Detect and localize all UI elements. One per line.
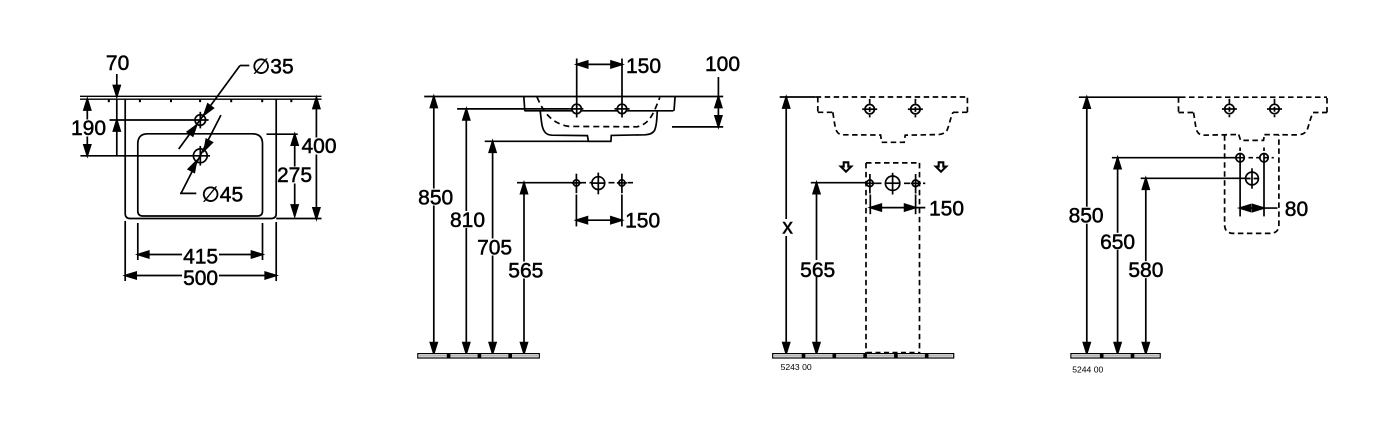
rim ref line view4: [1079, 96, 1180, 98]
dimension 415 extension lines: [137, 223, 139, 260]
dimension 190: [86, 99, 88, 156]
basin inner bowl rounded rect: [138, 134, 263, 216]
svg-text:190: 190: [71, 117, 106, 140]
fitting small left view4: [1236, 154, 1244, 162]
VIEW4 semi pedestal: [1071, 97, 1327, 358]
tap hole circle d35: [195, 115, 206, 126]
fitting large: [592, 177, 605, 190]
svg-text:70: 70: [106, 52, 129, 75]
dimension 565: [523, 183, 525, 354]
basin outer bottom extension line: [276, 218, 321, 220]
dimension 150 top: [577, 63, 622, 65]
dimension 580: [1145, 178, 1147, 353]
label 850 view4: [1068, 207, 1105, 224]
tap hole left view4: [1225, 104, 1234, 113]
leader line d35: [179, 66, 240, 150]
ref line 580: [1141, 177, 1246, 179]
ref line 650: [1112, 157, 1244, 159]
wall line bottom: [80, 98, 322, 100]
label 580: [1127, 261, 1164, 278]
label x: [779, 219, 795, 236]
svg-text:850: 850: [418, 187, 453, 210]
tap hole left: [572, 104, 581, 113]
floor band view4: [1071, 354, 1160, 358]
svg-text:5243 00: 5243 00: [781, 362, 812, 372]
wall line top: [80, 95, 322, 97]
rim line: [424, 96, 723, 98]
semi pedestal dashed: [1225, 135, 1279, 233]
ref line 810 to tap hole: [457, 108, 570, 110]
fittings row: ref line 565: [517, 182, 571, 184]
svg-text:5244 00: 5244 00: [1072, 364, 1103, 374]
inner top extension line for 275: [267, 133, 298, 135]
fitting large view3: [885, 176, 899, 190]
label 415: [182, 248, 219, 265]
drain circle d45: [193, 149, 207, 163]
basin outer rect: [125, 99, 276, 219]
fitting small left view3: [867, 180, 874, 187]
tap hole right view4: [1270, 104, 1279, 113]
dimension 80: [1240, 207, 1278, 209]
VIEW3 with pedestal: [773, 97, 969, 358]
tap hole right: [617, 104, 626, 113]
svg-text:415: 415: [183, 246, 218, 269]
tap hole centerline horizontal: [110, 119, 209, 121]
svg-text:850: 850: [1069, 205, 1104, 228]
VIEW2 texts: [417, 53, 740, 282]
svg-text:400: 400: [301, 135, 336, 158]
fitting small right: [619, 180, 625, 186]
wall hatch ticks: [109, 99, 291, 102]
VIEW2 front view: [418, 59, 723, 359]
label 565: [507, 262, 544, 279]
svg-text:705: 705: [477, 237, 512, 260]
svg-text:100: 100: [705, 53, 740, 76]
dimension 500: [125, 275, 276, 277]
label 810: [449, 211, 486, 228]
drain vertical crosshair: [199, 146, 201, 166]
VIEW1 texts: [71, 52, 338, 290]
dimension 850 view4: [1086, 97, 1088, 353]
leader line d45: [181, 115, 221, 193]
label 400: [302, 138, 338, 155]
svg-text:565: 565: [508, 260, 543, 283]
floor band view2: [418, 354, 540, 358]
label 500: [182, 269, 219, 286]
pedestal dashed outline: [866, 163, 920, 354]
fitting small right view4: [1260, 154, 1268, 162]
label 190: [72, 120, 106, 137]
dimension 500 extension lines: [124, 221, 126, 281]
ledge bottom line: [524, 110, 673, 112]
svg-text:275: 275: [277, 164, 312, 187]
floor band view3: [773, 353, 954, 359]
basin left edge: [524, 97, 525, 111]
bowl outline: [540, 111, 657, 142]
fitting large view4: [1246, 172, 1259, 185]
dimension 150 view3: [870, 207, 925, 209]
tap hole right view3: [911, 105, 920, 114]
dimension 850: [433, 97, 435, 354]
svg-text:650: 650: [1100, 231, 1135, 254]
svg-text:150: 150: [929, 198, 964, 221]
dimension 275: [294, 134, 296, 216]
hollow arrow right: [936, 162, 946, 171]
svg-text:500: 500: [183, 267, 218, 290]
basin right edge: [674, 97, 675, 111]
dimension 810: [465, 109, 467, 354]
dimension 70: [116, 74, 118, 97]
dimension 415: [138, 254, 263, 256]
dimension 150 bottom: [576, 219, 622, 221]
ref line 100 bottom: [672, 126, 723, 128]
svg-text:∅35: ∅35: [252, 55, 294, 78]
svg-text:∅45: ∅45: [202, 183, 244, 206]
svg-text:565: 565: [800, 259, 835, 282]
label 565 view3: [799, 260, 836, 277]
svg-text:580: 580: [1128, 259, 1163, 282]
dimension 400: [315, 98, 317, 219]
label 650: [1099, 233, 1136, 250]
bowl interior dashed: [537, 97, 660, 127]
svg-text:x: x: [782, 216, 793, 239]
svg-text:810: 810: [450, 209, 485, 232]
label 275: [278, 167, 313, 184]
ref line 565 view3: [811, 182, 866, 184]
drain tab view4: [1239, 135, 1265, 141]
dimension 650: [1117, 158, 1119, 354]
drain centerline horizontal: [80, 155, 210, 157]
label 850: [417, 189, 454, 206]
basin dashed outline: [816, 97, 969, 142]
rim ref line: [780, 96, 816, 98]
svg-text:150: 150: [626, 55, 661, 78]
dimension 150 view3 extension lines: [869, 195, 871, 215]
ref line 705: [485, 140, 612, 142]
dimension 80 extension lines: [1239, 148, 1241, 154]
dimension 100: [717, 77, 719, 127]
svg-text:150: 150: [625, 209, 660, 232]
dimension x: [785, 97, 787, 354]
dimension 565 view3: [816, 183, 818, 354]
VIEW3 texts: [779, 198, 964, 373]
tap hole left view3: [865, 105, 874, 114]
fitting small right view3: [912, 180, 919, 187]
fitting small left: [573, 180, 579, 186]
hollow arrow left: [841, 162, 851, 171]
svg-text:80: 80: [1285, 198, 1308, 221]
VIEW4 texts: [1068, 198, 1308, 374]
dimension 150 bottom extension lines: [575, 195, 577, 227]
label 705: [476, 239, 513, 256]
dimension 705: [492, 141, 494, 353]
basin dashed outline view4: [1179, 97, 1328, 233]
tap hole vertical crosshair: [199, 112, 201, 129]
